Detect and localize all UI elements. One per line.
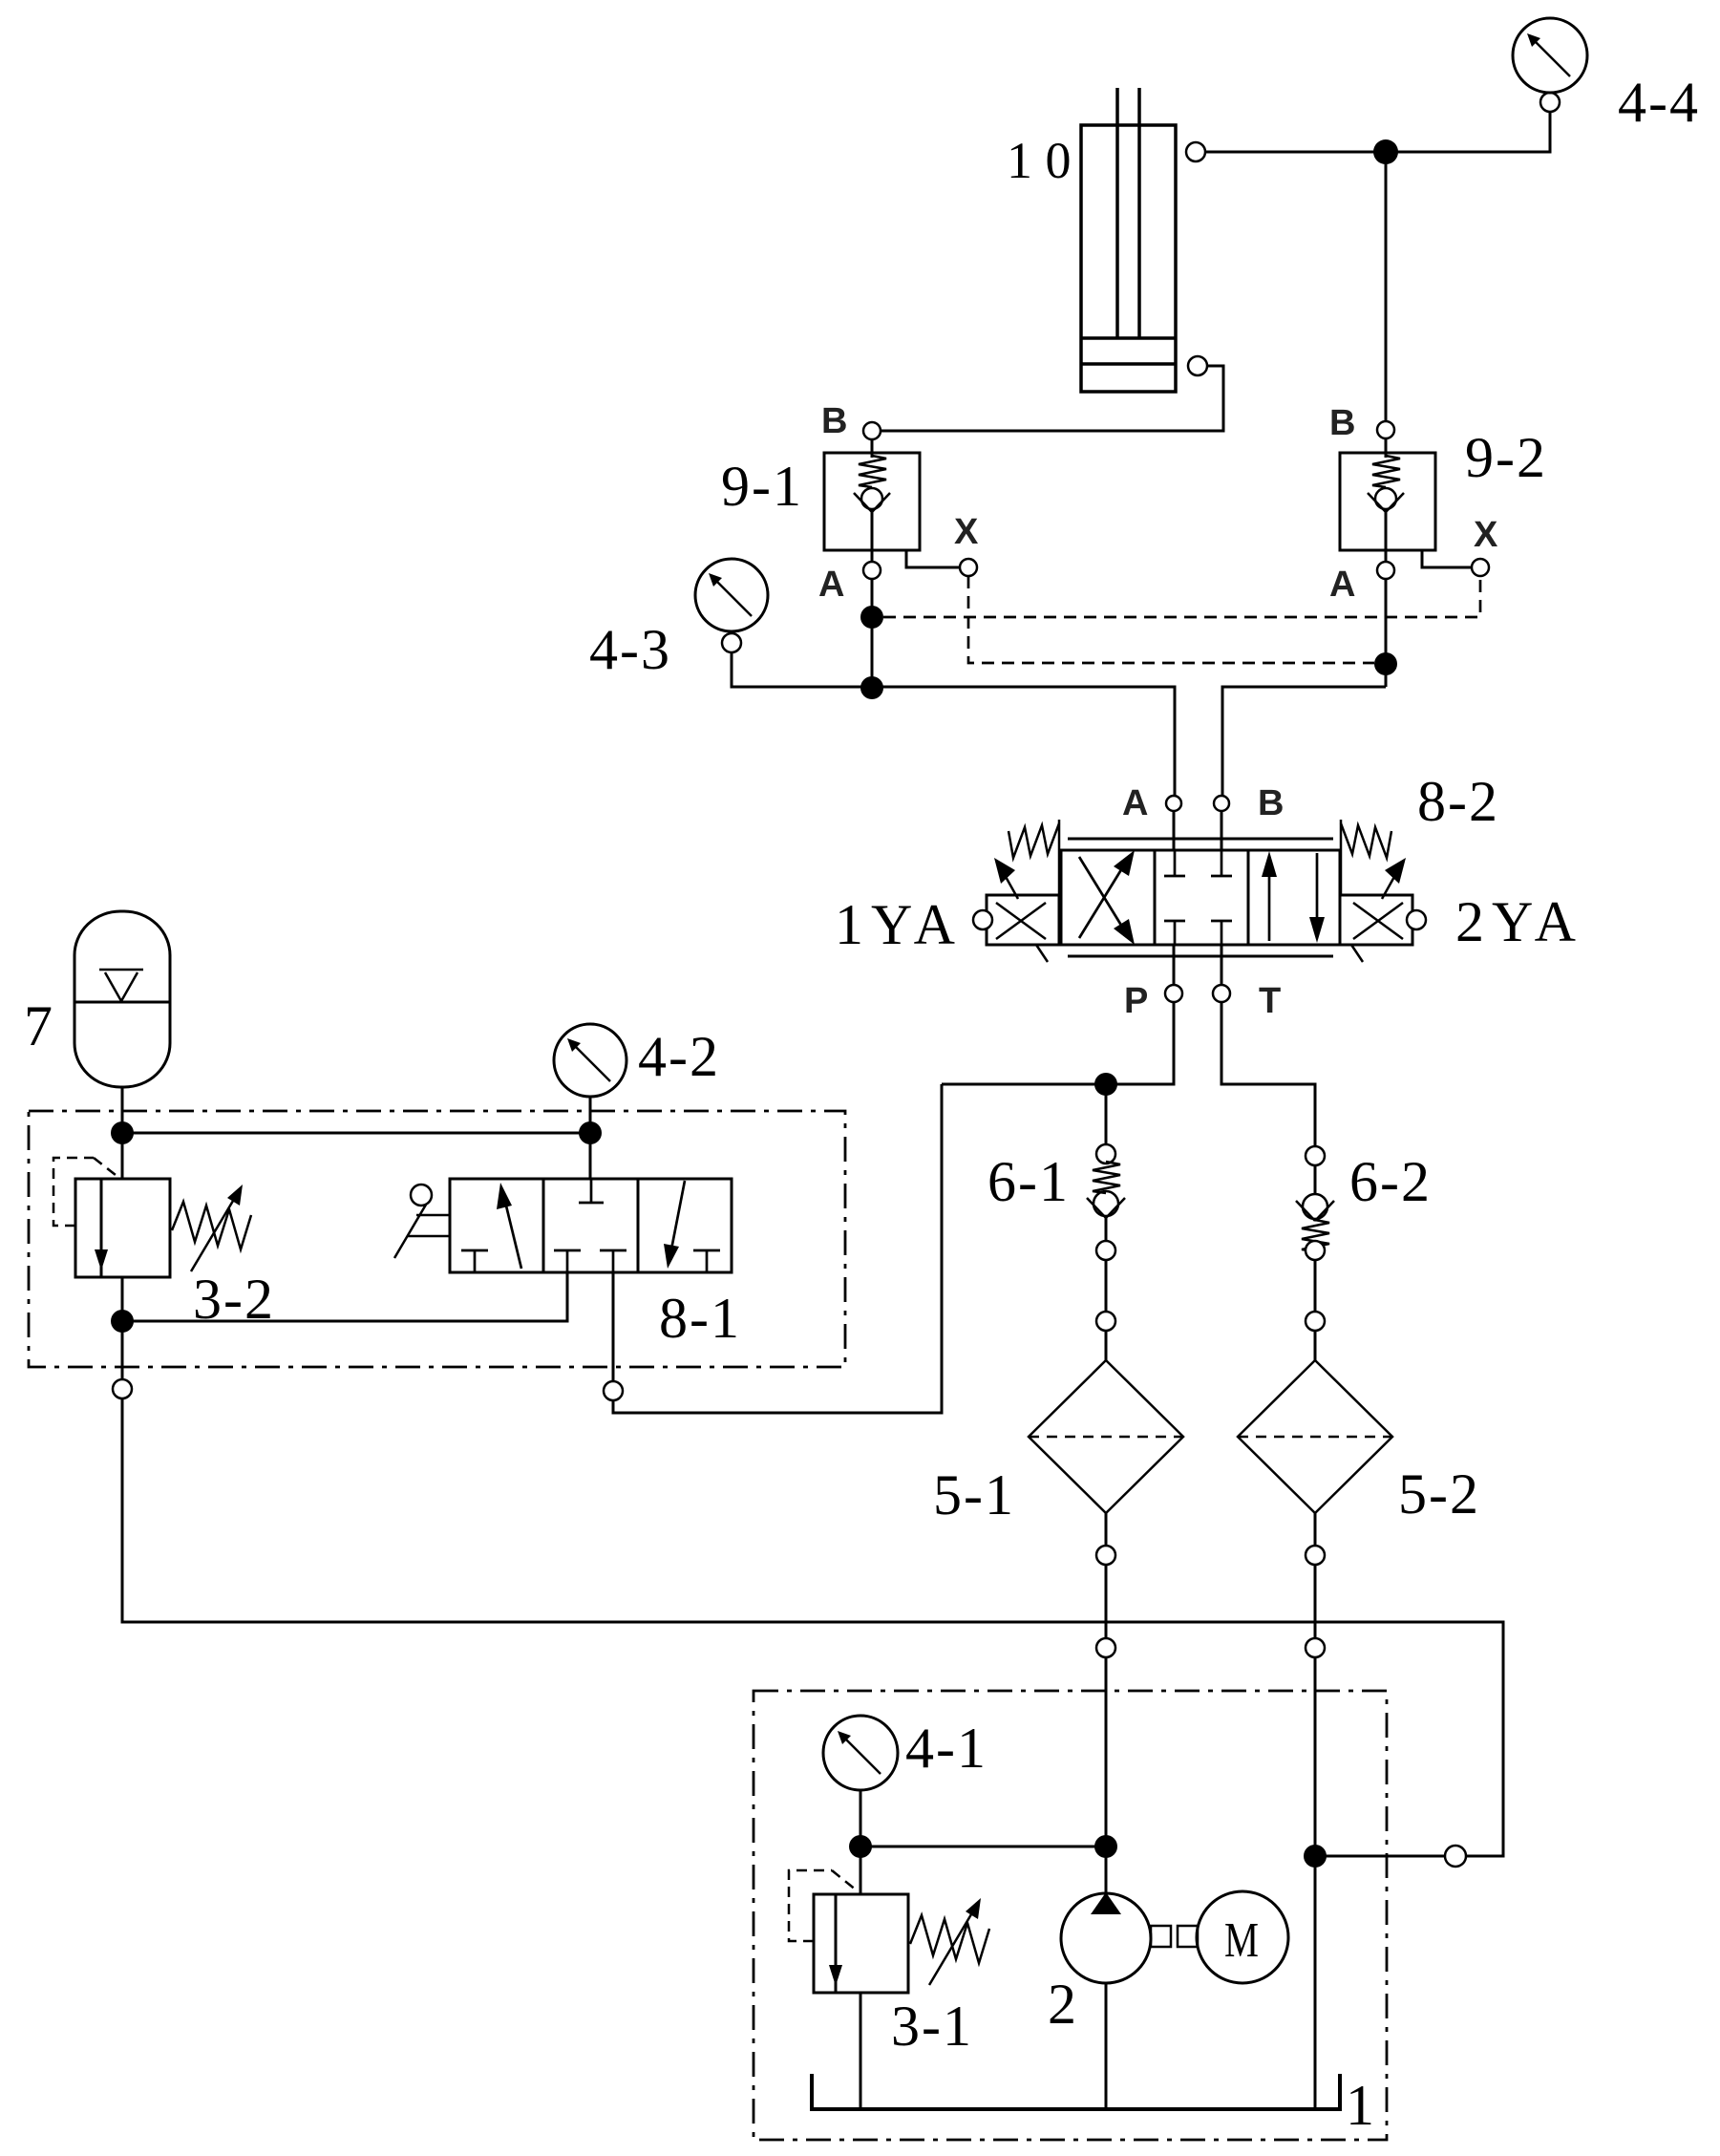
- cylinder top port: [1186, 142, 1205, 161]
- proportional arrow on 2YA: [1382, 858, 1406, 899]
- svg-text:8-1: 8-1: [659, 1287, 741, 1350]
- gauge 4-4: [1513, 18, 1587, 93]
- wire cylinder top to gauge 4-4: [1205, 112, 1550, 152]
- check valve 9-2 (pilot operated): [1340, 421, 1489, 579]
- valve 8-2 centre position closed ports: [1164, 850, 1232, 945]
- valve 8-1 right position: [664, 1181, 720, 1272]
- relief valve 3-2: [75, 1133, 170, 1321]
- check valve 6-2: [1296, 1146, 1334, 1260]
- svg-text:T: T: [1259, 981, 1281, 1021]
- valve 8-2 right position straight arrows: [1262, 851, 1325, 943]
- wire filter 5-2 down to tank: [1306, 1513, 1325, 2109]
- wire 9-1 A line: [871, 579, 874, 687]
- svg-text:1YA: 1YA: [835, 893, 963, 956]
- svg-text:M: M: [1224, 1913, 1259, 1968]
- manual valve 8-1 (3-position): [450, 1179, 732, 1272]
- filter 5-2: [1238, 1360, 1392, 1513]
- node pump outlet junction: [1094, 1835, 1117, 1858]
- svg-text:B: B: [1329, 403, 1355, 443]
- node 9-1 A / gauge line: [860, 676, 883, 699]
- node 3-2 outlet junction: [111, 1310, 134, 1333]
- node pilot tap on 9-2 A: [1374, 652, 1397, 675]
- pilot line 9-1 X to 9-2 A: [968, 576, 1374, 663]
- node P / 6-1: [1094, 1073, 1117, 1096]
- svg-text:5-2: 5-2: [1398, 1462, 1480, 1526]
- wire manifold top rail: [122, 1132, 590, 1135]
- svg-text:1: 1: [1346, 2074, 1376, 2137]
- svg-text:1 0: 1 0: [1007, 132, 1072, 189]
- port circle on box edge below 8-1: [604, 1381, 623, 1400]
- wire outlet down through box edge: [121, 1321, 124, 1379]
- wire 8-1 right port down: [612, 1272, 615, 1381]
- gauge 4-4 port: [1540, 93, 1560, 112]
- svg-text:5-1: 5-1: [933, 1463, 1015, 1526]
- pump 2: [1061, 1846, 1151, 2109]
- node junction rod-side: [1373, 139, 1398, 164]
- cylinder bottom port: [1188, 356, 1207, 375]
- svg-text:X: X: [1474, 515, 1498, 555]
- filter 5-1: [1029, 1360, 1183, 1513]
- enclosure dash-dot box power unit 1: [754, 1691, 1387, 2140]
- wire 9-2 A line: [1385, 579, 1388, 687]
- svg-text:8-2: 8-2: [1417, 770, 1499, 833]
- svg-text:9-1: 9-1: [721, 455, 803, 518]
- wire 6-1 to filter 5-1: [1105, 1260, 1108, 1313]
- relief valve 3-1: [814, 1894, 908, 2109]
- cylinder 10: [1081, 88, 1176, 392]
- gauge 4-1: [823, 1716, 898, 1790]
- svg-text:B: B: [1258, 783, 1284, 823]
- wire P to 8-1 lower port: [613, 1084, 942, 1413]
- svg-text:4-3: 4-3: [589, 618, 671, 681]
- svg-text:7: 7: [24, 994, 54, 1057]
- motor M: [1197, 1891, 1288, 1983]
- svg-text:A: A: [818, 565, 844, 605]
- svg-text:4-1: 4-1: [905, 1717, 987, 1780]
- wire T stub: [1221, 945, 1223, 985]
- node T return / loop: [1304, 1845, 1327, 1868]
- gauge 4-2: [554, 1024, 626, 1133]
- adjust arrow of 3-2: [191, 1185, 243, 1271]
- wire 6-2 to filter 5-2: [1314, 1260, 1317, 1313]
- svg-text:4-2: 4-2: [638, 1025, 720, 1088]
- pilot line of 3-2: [53, 1158, 116, 1226]
- valve 8-2 port P circle: [1165, 985, 1182, 1002]
- pilot line 9-1 A to 9-2 X: [883, 576, 1480, 617]
- wire junction to 9-2 B: [1385, 152, 1388, 421]
- valve 8-1 left position: [461, 1183, 521, 1272]
- valve 8-2 port B circle: [1214, 796, 1229, 811]
- wire P line down and left: [942, 1002, 1174, 1084]
- enclosure dash-dot box accumulator unit: [29, 1111, 845, 1367]
- solenoid 2YA box: [1340, 895, 1426, 962]
- spring left of 8-2: [1009, 820, 1059, 895]
- wire loop into tank line: [1315, 1855, 1445, 1858]
- svg-text:9-2: 9-2: [1465, 426, 1547, 489]
- wire T line down and right: [1221, 1002, 1315, 1146]
- svg-text:2: 2: [1048, 1973, 1078, 2036]
- svg-text:A: A: [1122, 783, 1148, 823]
- node gauge/pump junction left: [849, 1835, 872, 1858]
- svg-text:3-1: 3-1: [891, 1995, 973, 2058]
- wire cylinder bottom to 9-1 B: [881, 366, 1223, 431]
- wire 3-2 outlet to 8-1 port: [122, 1272, 567, 1321]
- svg-text:A: A: [1329, 565, 1355, 605]
- svg-text:B: B: [821, 401, 847, 441]
- wire gauge junction to valve 8-1: [589, 1133, 592, 1179]
- wire gauge 4-3 to valve 8-2 port A: [732, 652, 1175, 796]
- svg-text:6-2: 6-2: [1349, 1150, 1432, 1213]
- wire accumulator to manifold: [121, 1087, 124, 1133]
- check valve 9-1 (pilot operated): [824, 422, 977, 579]
- wire gauge 4-1 down to relief 3-1: [860, 1790, 862, 1894]
- valve 8-1 centre position closed ports: [554, 1179, 626, 1272]
- accumulator 7: [74, 911, 170, 1087]
- adjust arrow of 3-1: [929, 1898, 981, 1985]
- solenoid 1YA box: [973, 895, 1059, 962]
- wire filter 5-1 down to pump: [1096, 1513, 1115, 1846]
- svg-text:P: P: [1124, 981, 1148, 1021]
- svg-text:2YA: 2YA: [1455, 890, 1583, 953]
- check valve 6-1: [1087, 1084, 1125, 1260]
- node accumulator junction: [111, 1121, 134, 1144]
- svg-text:4-4: 4-4: [1618, 71, 1700, 134]
- port circle on box edge below 3-2: [113, 1379, 132, 1398]
- node gauge 4-2 junction: [579, 1121, 602, 1144]
- valve 8-2 port T circle: [1213, 985, 1230, 1002]
- valve 8-2 port A circle: [1166, 796, 1181, 811]
- shaft coupling: [1151, 1926, 1198, 1947]
- spring of 3-2: [172, 1202, 251, 1249]
- wire P stub: [1173, 945, 1176, 985]
- gauge 4-3: [695, 559, 768, 631]
- tank 1: [812, 2074, 1340, 2109]
- wire A into valve: [1173, 811, 1176, 850]
- valve 8-2 left position crossed arrows: [1079, 850, 1135, 945]
- svg-text:X: X: [954, 512, 979, 552]
- wire 9-2 A to valve 8-2 port B: [1222, 687, 1386, 796]
- wire B into valve: [1221, 811, 1223, 850]
- svg-text:6-1: 6-1: [987, 1150, 1070, 1213]
- spring of 3-1: [910, 1915, 989, 1963]
- lever actuator of 8-1: [394, 1185, 450, 1258]
- wire accumulator-circuit return loop: [122, 1398, 1503, 1856]
- proportional arrow on 1YA: [994, 858, 1018, 899]
- spring right of 8-2: [1341, 820, 1391, 895]
- node pilot tap on 9-1 A: [860, 606, 883, 629]
- port circle on return loop: [1445, 1846, 1466, 1867]
- wire junction to pump line: [860, 1846, 1106, 1848]
- pilot line of 3-1: [789, 1870, 857, 1941]
- gauge 4-3 port: [722, 633, 741, 652]
- valve 8-2 body: [1061, 839, 1340, 956]
